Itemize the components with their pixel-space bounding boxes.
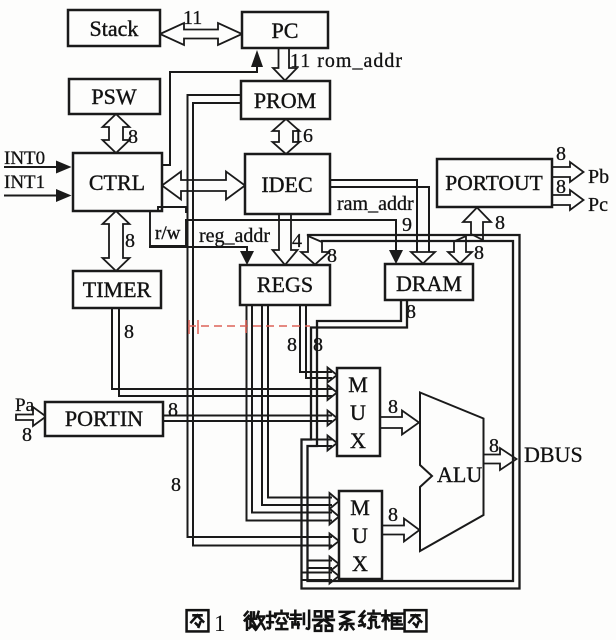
svg-text:PROM: PROM [254, 88, 316, 113]
wire PROM left bus down to MUX2 input3 (pair line a) [188, 95, 332, 537]
node INT0 arrowhead (filled) [56, 161, 72, 174]
svg-text:Pc: Pc [588, 194, 608, 216]
svg-text:8: 8 [125, 230, 135, 252]
wire Pb arrow [552, 162, 584, 182]
svg-text:8: 8 [124, 321, 134, 343]
wire ALU output arrow (DBUS) [483, 448, 517, 470]
svg-text:CTRL: CTRL [89, 170, 145, 195]
svg-text:ALU: ALU [437, 462, 482, 487]
wire PROM left bus down to MUX2 input3 (pair line b) [193, 103, 331, 546]
svg-text:Stack: Stack [90, 16, 139, 41]
node MUX1 input1 arrowhead [328, 368, 338, 383]
svg-text:9: 9 [402, 214, 412, 236]
block CTRL [73, 153, 162, 211]
svg-text:8: 8 [128, 126, 138, 148]
svg-text:X: X [350, 428, 366, 453]
svg-text:8: 8 [474, 242, 484, 264]
caption char 图 (tu2) [405, 610, 427, 631]
wire PORTIN output to MUX1 input3 [163, 415, 331, 417]
svg-text:4: 4 [292, 230, 302, 252]
svg-text:8: 8 [489, 435, 499, 457]
node MUX2 input4 arrowhead [330, 557, 340, 572]
wire DBUS-PORTOUT up arrow (8) [463, 208, 491, 241]
wire MUX1 output arrow [380, 411, 419, 435]
block PSW [69, 79, 160, 114]
svg-text:8: 8 [556, 176, 566, 198]
node MUX2 input3 arrowhead [330, 534, 340, 549]
block MUX2 [339, 491, 382, 579]
svg-text:X: X [352, 551, 368, 576]
svg-text:8: 8 [388, 504, 398, 526]
svg-text:INT1: INT1 [4, 172, 45, 193]
wire DBUS loop inner [308, 241, 514, 581]
svg-text:8: 8 [327, 245, 337, 267]
svg-text:PSW: PSW [91, 84, 136, 109]
node reg_addr arrowhead into REGS (filled) [240, 251, 254, 265]
node MUX1 input4 arrowhead [328, 436, 338, 451]
wire REGS output pair B to MUX2 input2 [252, 302, 331, 513]
wire REGS output pair A to MUX2 input1 [268, 302, 331, 498]
svg-text:11: 11 [183, 7, 202, 29]
wire Pc arrow [552, 190, 584, 210]
svg-text:r/w: r/w [155, 223, 181, 244]
svg-text:8: 8 [495, 212, 505, 234]
wire MUX2 output arrow [382, 519, 420, 542]
svg-text:11 rom_addr: 11 rom_addr [290, 50, 403, 72]
wire CTRL to PC (rom feedback) [162, 66, 257, 165]
svg-text:1: 1 [214, 611, 226, 636]
block MUX1 [337, 368, 380, 456]
wire branch to MUX2 input4 [308, 560, 332, 562]
caption char 微 (wei) [245, 612, 265, 630]
caption char 控 (kong) [267, 611, 288, 629]
node MUX1 input2 arrowhead [328, 385, 338, 400]
svg-text:INT0: INT0 [4, 148, 45, 169]
node INT1 arrowhead (filled) [56, 189, 72, 202]
svg-text:8: 8 [168, 399, 178, 421]
caption char 制 (zhi) [290, 611, 309, 629]
node MUX1 input3 arrowhead [328, 411, 338, 426]
node MUX2 input2 arrowhead [330, 509, 340, 525]
svg-text:8: 8 [287, 334, 297, 356]
wire DBUS-DRAM arrow (8) [448, 236, 472, 264]
svg-text:M: M [350, 495, 370, 520]
svg-text:8: 8 [313, 334, 323, 356]
block Stack [68, 10, 160, 46]
wire branch to MUX1 input4 [302, 439, 332, 441]
caption char 图 (tu) [187, 610, 209, 631]
wire PROM-IDEC double arrow [273, 119, 300, 154]
node arrowhead into PC (filled) [251, 50, 263, 67]
node ram_addr arrowhead into DRAM (filled) [389, 250, 403, 264]
wire INT0 [5, 166, 56, 168]
svg-text:PORTIN: PORTIN [65, 406, 143, 431]
svg-text:PC: PC [272, 18, 299, 43]
wire Stack-PC double arrow [160, 23, 242, 45]
node MUX2 input1 arrowhead [330, 493, 340, 509]
wire DBUS-REGS write arrow (8) [301, 236, 329, 265]
wire IDEC-DRAM arrow [411, 252, 435, 264]
svg-text:DBUS: DBUS [524, 442, 583, 467]
svg-text:8: 8 [171, 474, 181, 496]
svg-text:PORTOUT: PORTOUT [445, 171, 542, 195]
caption 图1 微控制器系统框图 (hand-drawn glyph approximations) [187, 610, 427, 636]
block r/w [150, 207, 186, 246]
svg-text:TIMER: TIMER [83, 277, 152, 302]
block PROM [241, 81, 330, 119]
svg-text:Pb: Pb [588, 166, 609, 188]
svg-text:16: 16 [293, 125, 313, 147]
wire reg_addr [150, 247, 247, 253]
svg-text:DRAM: DRAM [396, 271, 462, 296]
svg-text:reg_addr: reg_addr [199, 225, 270, 247]
wire TIMER output to MUX1 input2 [112, 303, 331, 389]
wire CTRL-TIMER double arrow [103, 211, 130, 271]
block PORTIN [45, 402, 163, 436]
wire IDEC right to DRAM (pair) [330, 180, 417, 251]
caption char 统 (tong) [359, 611, 380, 629]
svg-text:8: 8 [406, 301, 416, 323]
svg-text:M: M [348, 372, 368, 397]
wire Pa arrow [16, 407, 46, 426]
wire DBUS loop outer [302, 235, 520, 589]
svg-text:REGS: REGS [257, 272, 313, 297]
svg-text:8: 8 [556, 143, 566, 165]
block DRAM [385, 264, 473, 300]
wire CTRL-IDEC double arrow [162, 172, 245, 200]
svg-text:Pa: Pa [15, 395, 35, 416]
wire INT1 [5, 195, 56, 197]
caption char 框 (kuang) [382, 611, 403, 629]
wire IDEC-REGS arrow (4) [273, 214, 298, 265]
boxes [45, 10, 552, 579]
svg-text:U: U [350, 400, 366, 425]
block PORTOUT [437, 159, 552, 207]
block IDEC [245, 154, 330, 214]
wire ram_addr [186, 220, 396, 251]
wire branch to MUX2 input5 [302, 572, 332, 574]
node MUX2 input5 arrowhead [330, 569, 340, 584]
caption char 系 (xi) [340, 612, 354, 630]
wire REGS output B to MUX1 input1 [300, 302, 331, 372]
svg-text:IDEC: IDEC [261, 172, 312, 197]
svg-text:8: 8 [22, 424, 32, 446]
wire PC-PROM arrow [273, 48, 297, 81]
svg-text:8: 8 [388, 396, 398, 418]
block ALU [420, 393, 484, 552]
red annotation marks [188, 320, 310, 334]
svg-text:U: U [352, 523, 368, 548]
svg-text:ram_addr: ram_addr [337, 193, 414, 215]
caption char 器 (qi) [313, 611, 334, 631]
block REGS [240, 265, 330, 305]
wire PSW-CTRL double arrow [103, 114, 130, 153]
block TIMER [73, 271, 161, 308]
block PC [242, 12, 328, 48]
